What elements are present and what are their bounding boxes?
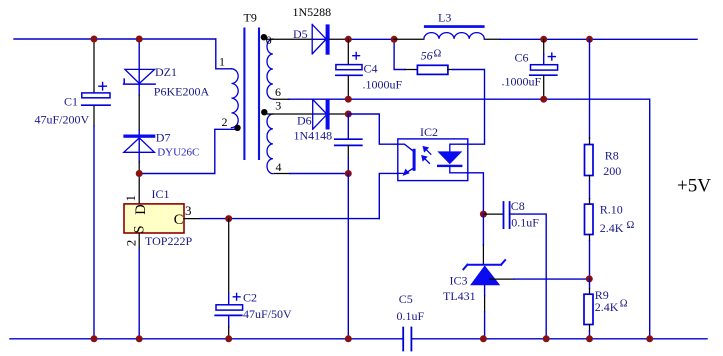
wire C8 right lead <box>510 214 547 339</box>
wire C6 upper <box>543 54 545 65</box>
wire D5 inner <box>312 38 326 40</box>
svg-text:Ω: Ω <box>434 49 442 60</box>
wire primary pin1 drop <box>216 39 232 69</box>
zener DZ1 <box>124 69 156 84</box>
wire IC2 emitter out <box>379 173 398 218</box>
node C8 junction <box>480 211 487 218</box>
wire TL431 ref black stub <box>490 278 514 280</box>
wire primary pin2 return <box>139 129 236 173</box>
wire C2 top pin <box>228 293 230 305</box>
resistor R9 <box>584 294 593 324</box>
wire R9 bottom pin <box>589 325 591 332</box>
wire IC1 control pin <box>184 218 200 220</box>
node R8 top <box>586 36 593 43</box>
svg-text:C5: C5 <box>399 292 413 306</box>
svg-text:C8: C8 <box>511 199 525 213</box>
svg-text:R.10: R.10 <box>600 203 623 217</box>
svg-text:DZ1: DZ1 <box>155 65 177 79</box>
wire R10 bottom pin <box>589 235 591 241</box>
svg-text:3: 3 <box>185 203 192 218</box>
wire C2 bottom pin <box>228 315 230 327</box>
wire R9 to bottom rail <box>589 331 591 339</box>
svg-text:200: 200 <box>603 164 621 178</box>
svg-text:IC1: IC1 <box>152 187 170 201</box>
wire node to R9 <box>589 279 591 289</box>
shunt reference IC3 TL431 <box>463 260 505 285</box>
node bottom R9 <box>586 335 593 342</box>
IC1 TOP222P body <box>124 204 184 233</box>
capacitor C5 <box>403 328 411 351</box>
wire pin4 to node <box>290 173 348 175</box>
capacitor C2 <box>215 294 242 316</box>
wire 56ohm right lead <box>448 69 453 71</box>
wire TL431 cathode pin <box>482 245 484 265</box>
svg-text:D6: D6 <box>297 113 312 127</box>
svg-text:.1000uF: .1000uF <box>363 78 403 92</box>
transformer T9 secondary winding A <box>267 39 273 99</box>
capacitor snubber <box>335 139 362 145</box>
svg-text:0.1uF: 0.1uF <box>511 215 539 229</box>
svg-text:3: 3 <box>275 99 281 113</box>
svg-text:47uF/200V: 47uF/200V <box>35 112 90 126</box>
wire IC2 cathode out <box>468 173 484 214</box>
svg-text:DYU26C: DYU26C <box>157 147 199 159</box>
svg-text:+5V: +5V <box>677 176 711 197</box>
wire control line <box>200 218 379 220</box>
wire 56ohm tap <box>394 39 405 69</box>
wire R10 to node <box>589 241 591 279</box>
node bottom return <box>646 335 653 342</box>
wire R10 top pin <box>589 199 591 205</box>
wire top rail secondary <box>345 38 394 40</box>
svg-text:C: C <box>174 212 184 228</box>
wire D7 to node <box>138 162 140 174</box>
wire C4 top pin <box>347 39 349 64</box>
node C6 top <box>540 36 547 43</box>
svg-text:6: 6 <box>275 85 281 99</box>
wire R8 top pin <box>589 138 591 145</box>
node C6 bottom <box>540 96 547 103</box>
wire D5 anode <box>267 38 313 40</box>
capacitor C8 <box>504 202 510 228</box>
wire C6 top pin <box>543 39 545 54</box>
capacitor C4 <box>336 52 362 75</box>
wire C1 to bottom rail <box>93 126 95 339</box>
wire D6 to IC2 collector <box>348 114 398 144</box>
svg-text:TL431: TL431 <box>443 289 476 303</box>
svg-text:0.1uF: 0.1uF <box>397 309 425 323</box>
transformer T9 core <box>244 29 259 160</box>
diode D6 <box>313 99 330 129</box>
optocoupler IC2 box <box>398 139 468 181</box>
svg-text:S: S <box>131 225 147 233</box>
IC2 light arrows <box>421 146 431 163</box>
svg-text:.1000uF: .1000uF <box>502 74 542 88</box>
wire C2 upper <box>228 219 230 294</box>
wire D7 cathode <box>138 131 140 163</box>
node bottom C2 <box>225 335 232 342</box>
node D6 out <box>345 111 352 118</box>
svg-text:1: 1 <box>123 195 138 202</box>
node 56ohm tap <box>391 36 398 43</box>
node D7 junction <box>136 170 143 177</box>
wire pin6 stub <box>274 98 290 100</box>
wire R8 bottom pin <box>589 176 591 182</box>
node bottom pin4 <box>345 335 352 342</box>
node pin4 <box>345 170 352 177</box>
svg-text:2.4K: 2.4K <box>595 300 619 314</box>
svg-text:D7: D7 <box>156 130 171 144</box>
wire pin4 node to bottom rail <box>347 174 349 339</box>
svg-text:C1: C1 <box>64 95 78 109</box>
wire TL431 anode to bottom rail <box>484 312 486 339</box>
wire DZ1 top <box>138 39 140 95</box>
wire C6 bottom pin <box>543 75 545 99</box>
svg-text:P6KE200A: P6KE200A <box>154 84 210 98</box>
wire D6 anode <box>267 113 313 115</box>
svg-text:IC3: IC3 <box>450 273 468 287</box>
wire DZ1 to D7 <box>138 95 140 131</box>
node bottom IC1 <box>136 335 143 342</box>
svg-text:TOP222P: TOP222P <box>145 234 192 248</box>
svg-text:T9: T9 <box>244 11 257 25</box>
svg-text:Ω: Ω <box>627 220 635 231</box>
svg-text:2: 2 <box>123 240 138 247</box>
IC2 LED <box>437 144 468 173</box>
wire secondary return rail <box>289 99 650 339</box>
wire R8 top <box>589 39 591 138</box>
svg-text:C2: C2 <box>243 291 257 305</box>
wire R9 top pin <box>589 289 591 295</box>
wire snubber to pin4 node <box>347 158 349 174</box>
node bottom C1 <box>91 335 98 342</box>
svg-text:47uF/50V: 47uF/50V <box>243 307 292 321</box>
wire bottom rail left <box>10 338 403 340</box>
phase dot secondary B <box>261 109 267 115</box>
wire TL431 anode pin <box>484 285 486 296</box>
wire IC1 source pin <box>138 233 140 248</box>
resistor R10 <box>585 204 594 234</box>
phase dot primary <box>234 125 240 131</box>
node bottom TL431 <box>480 335 487 342</box>
svg-text:2.4K: 2.4K <box>600 221 624 235</box>
wire D6 inner <box>313 113 326 115</box>
resistor R8 <box>585 145 594 176</box>
wire D5 cathode <box>330 38 345 40</box>
wire bottom rail right <box>412 338 707 340</box>
transformer T9 secondary winding B <box>267 114 273 174</box>
phase dot secondary A <box>261 34 267 40</box>
wire TL431 ref <box>514 278 589 280</box>
wire D6 cathode <box>330 113 349 115</box>
wire snubber cap top pin <box>347 114 349 139</box>
svg-text:1N5288: 1N5288 <box>293 5 332 19</box>
node C2 top <box>225 215 232 222</box>
wire R8 to R10 <box>589 181 591 199</box>
node C4 bottom <box>345 96 352 103</box>
wire TL431 cathode upper <box>482 214 484 245</box>
wire top-left rail <box>14 38 216 40</box>
inductor L3 <box>424 25 485 39</box>
wire 56ohm left lead <box>405 69 417 71</box>
wire C8 left lead <box>483 213 503 215</box>
svg-text:IC2: IC2 <box>420 125 438 139</box>
wire C1 bottom pin <box>93 105 95 126</box>
wire C1 top pin <box>93 39 95 93</box>
diode D5 <box>312 24 329 54</box>
node divider <box>586 275 593 282</box>
node DZ1 top <box>136 36 143 43</box>
svg-text:56: 56 <box>421 49 433 63</box>
wire 56ohm to IC2 anode <box>453 70 485 145</box>
wire pin4 stub <box>274 173 290 175</box>
transformer T9 primary winding <box>232 69 239 128</box>
node C1 top <box>91 36 98 43</box>
wire TL431 anode mid <box>484 296 486 312</box>
svg-text:L3: L3 <box>438 10 451 24</box>
svg-text:R8: R8 <box>605 148 619 162</box>
svg-text:4: 4 <box>276 160 282 174</box>
IC2 phototransistor <box>398 144 416 176</box>
inductor L3 leads <box>394 38 500 40</box>
node bottom C8 <box>543 335 550 342</box>
svg-text:1N4148: 1N4148 <box>294 129 333 143</box>
wire C2 to bottom rail <box>228 327 230 339</box>
node D5 out <box>345 36 352 43</box>
diode D7 <box>123 135 155 153</box>
resistor 56ohm <box>417 65 448 74</box>
svg-text:D5: D5 <box>293 27 308 41</box>
wire top rail to right end <box>500 38 697 40</box>
wire IC1 source to bottom rail <box>138 248 140 339</box>
svg-text:C6: C6 <box>515 51 529 65</box>
svg-text:C4: C4 <box>364 62 378 76</box>
svg-text:Ω: Ω <box>620 299 628 310</box>
capacitor C1 <box>82 83 110 106</box>
capacitor C6 <box>530 53 558 75</box>
svg-text:D: D <box>133 204 149 214</box>
wire C4 bottom pin <box>347 75 349 99</box>
svg-text:1: 1 <box>219 55 225 69</box>
wire snubber cap bottom pin <box>347 145 349 158</box>
svg-text:2: 2 <box>222 115 228 129</box>
wire node to IC1 drain <box>138 174 140 204</box>
